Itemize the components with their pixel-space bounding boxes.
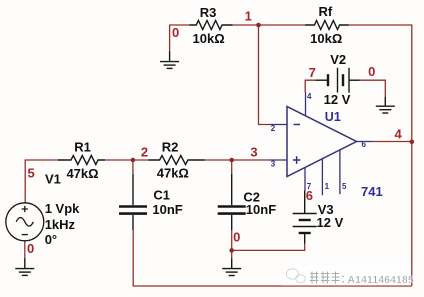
AC source V1 — [6, 203, 44, 241]
wire Rf right to right edge and down — [349, 25, 412, 286]
svg-text:2: 2 — [271, 124, 276, 133]
wire node 0 junction to ground stem — [231, 250, 233, 258]
ground bottom (C2) — [222, 259, 241, 276]
op-amp input leads — [270, 125, 288, 161]
wire R2 to op-amp + input through node 3 — [205, 159, 270, 161]
svg-text:4: 4 — [394, 126, 402, 141]
op-amp pin 4 lead — [305, 93, 307, 116]
wire R1 to R2 through node 2 — [105, 159, 148, 161]
svg-text:10kΩ: 10kΩ — [193, 31, 225, 46]
wire node 0 junction to V3 bottom — [232, 244, 305, 251]
svg-text:1: 1 — [325, 182, 330, 191]
wire R3 right to node 1 — [233, 24, 259, 26]
wire node 2 down to C1 — [132, 160, 134, 174]
op-amp pin 1 lead — [321, 159, 323, 195]
svg-text:741: 741 — [361, 184, 383, 199]
svg-text:U1: U1 — [325, 110, 341, 124]
watermark chinese glyphs — [310, 272, 343, 284]
svg-text:1kHz: 1kHz — [45, 217, 76, 232]
svg-text:4: 4 — [307, 92, 312, 101]
svg-text:0: 0 — [233, 229, 240, 244]
watermark background glow — [282, 266, 411, 286]
svg-text:7: 7 — [309, 65, 316, 80]
wire node 3 down to C2 — [231, 160, 233, 174]
resistor R1 — [58, 156, 105, 165]
battery V3 — [293, 191, 317, 244]
wire node 1 to Rf left — [259, 24, 306, 26]
node 3 junction dot — [229, 158, 234, 163]
svg-text:1: 1 — [245, 9, 252, 24]
svg-text:1 Vpk: 1 Vpk — [45, 201, 80, 216]
svg-text:5: 5 — [27, 166, 34, 181]
wire C2 bottom to node 0 junction — [231, 230, 233, 250]
svg-text:5: 5 — [342, 182, 347, 191]
svg-text:12 V: 12 V — [317, 215, 344, 230]
wire V1 bottom to ground — [24, 241, 26, 259]
op-amp pin 7 lead — [304, 167, 306, 191]
svg-text:7: 7 — [307, 182, 312, 191]
svg-text:0: 0 — [27, 241, 34, 256]
ground top (R3) — [160, 51, 179, 68]
svg-text:V2: V2 — [330, 52, 346, 67]
capacitor C2 — [218, 174, 246, 230]
svg-text:R3: R3 — [200, 5, 217, 20]
wire top from ground to R3 — [170, 25, 190, 51]
svg-text:V1: V1 — [45, 171, 61, 186]
svg-text:0°: 0° — [45, 232, 57, 247]
wire V1 to R1 — [25, 160, 58, 203]
node 2 junction dot — [131, 158, 136, 163]
svg-text:0: 0 — [172, 25, 179, 40]
wire V2 right to ground — [360, 80, 386, 97]
svg-text:47kΩ: 47kΩ — [66, 166, 98, 181]
svg-text:A1411464185: A1411464185 — [348, 275, 414, 286]
op-amp plus sign — [293, 156, 300, 163]
resistor R2 — [148, 156, 205, 165]
svg-text:R2: R2 — [162, 139, 179, 154]
svg-text:0: 0 — [368, 64, 375, 79]
battery V2 — [315, 68, 360, 93]
op-amp pin 5 lead — [339, 150, 341, 194]
svg-text:6: 6 — [362, 140, 367, 149]
svg-text:10kΩ: 10kΩ — [310, 31, 342, 46]
svg-text:C1: C1 — [153, 188, 170, 203]
svg-text:10nF: 10nF — [152, 202, 182, 217]
node 0 junction dot — [229, 248, 234, 253]
resistor R3 — [189, 21, 233, 30]
svg-text:3: 3 — [271, 160, 276, 169]
ground V2 — [376, 97, 395, 113]
wire node1 down to op-amp inverting input — [259, 25, 270, 125]
op-amp U1 triangle — [287, 107, 357, 177]
svg-text:12 V: 12 V — [324, 92, 351, 107]
capacitor C1 — [119, 174, 147, 230]
wire op-amp output to right edge — [372, 141, 412, 143]
ground V1 — [15, 258, 34, 275]
svg-text:2: 2 — [141, 145, 148, 160]
resistor Rf — [305, 21, 349, 30]
watermark wechat icon — [286, 269, 305, 283]
op-amp output lead — [357, 141, 372, 143]
svg-text:47kΩ: 47kΩ — [157, 166, 189, 181]
node 1 junction dot — [256, 23, 261, 28]
wire V2 left to op-amp pin 4 — [305, 80, 315, 92]
svg-text:R1: R1 — [74, 139, 91, 154]
svg-text:10nF: 10nF — [246, 202, 276, 217]
node 4 junction dot — [410, 140, 415, 145]
svg-text:3: 3 — [250, 145, 257, 160]
svg-text:Rf: Rf — [318, 4, 332, 19]
op-amp minus sign — [294, 124, 301, 126]
wire C1 bottom along bottom to right edge — [133, 230, 412, 286]
